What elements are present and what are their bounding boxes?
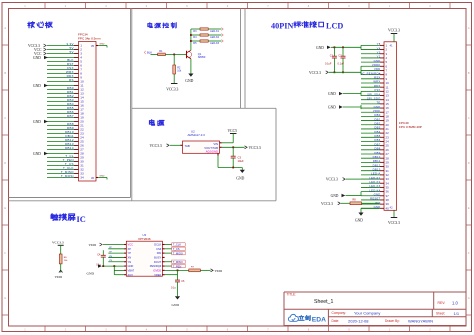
svg-text:DB2: DB2 <box>374 122 380 126</box>
svg-text:LED-K3: LED-K3 <box>369 184 380 188</box>
svg-text:LED-K2: LED-K2 <box>369 180 380 184</box>
svg-text:DB5: DB5 <box>374 134 380 138</box>
svg-text:PENIRQ#: PENIRQ# <box>150 264 162 268</box>
svg-text:WANGYAWIN: WANGYAWIN <box>408 319 433 324</box>
svg-text:A: A <box>4 26 6 30</box>
svg-text:VCC3.3: VCC3.3 <box>150 144 162 148</box>
svg-text:XN: XN <box>128 256 132 260</box>
svg-text:Your Company: Your Company <box>354 311 380 316</box>
svg-text:GND: GND <box>100 175 105 177</box>
svg-text:VCC3.3: VCC3.3 <box>321 202 333 206</box>
svg-text:0.1u: 0.1u <box>171 287 176 290</box>
svg-text:DB6: DB6 <box>374 138 380 142</box>
svg-text:YN: YN <box>128 260 132 264</box>
svg-text:VCC3.3: VCC3.3 <box>309 71 321 75</box>
svg-text:GND: GND <box>172 303 180 307</box>
svg-text:DIN: DIN <box>157 251 162 255</box>
svg-text:T_PEN: T_PEN <box>173 264 182 268</box>
svg-text:GND: GND <box>33 152 41 156</box>
svg-text:TE: TE <box>376 101 380 105</box>
svg-text:WRX: WRX <box>373 80 380 84</box>
svg-text:E: E <box>4 206 6 210</box>
svg-text:VCC3.3: VCC3.3 <box>52 241 64 245</box>
svg-text:CSX: CSX <box>374 88 380 92</box>
svg-text:T_MISO: T_MISO <box>173 260 183 264</box>
svg-text:EDA: EDA <box>312 316 326 323</box>
svg-text:Date:: Date: <box>332 319 340 323</box>
svg-text:G: G <box>468 296 470 300</box>
svg-text:GND: GND <box>33 120 41 124</box>
svg-text:0.1uF: 0.1uF <box>338 63 345 66</box>
svg-text:GND: GND <box>331 194 339 198</box>
svg-text:DB7: DB7 <box>67 114 74 118</box>
svg-text:GND: GND <box>355 219 363 223</box>
svg-text:XPT2046: XPT2046 <box>138 237 151 241</box>
svg-text:XN: XN <box>109 256 112 258</box>
svg-text:Y4: Y4 <box>377 46 381 50</box>
svg-text:S8050: S8050 <box>198 55 206 59</box>
svg-text:DB7: DB7 <box>374 142 380 146</box>
svg-text:VCC3.3: VCC3.3 <box>326 178 338 182</box>
svg-text:GND: GND <box>328 106 336 110</box>
svg-text:VDD: VDD <box>89 243 97 247</box>
svg-text:IOVDD: IOVDD <box>153 268 161 272</box>
svg-text:Sheet:: Sheet: <box>436 311 445 315</box>
svg-text:LED-K2: LED-K2 <box>210 36 219 39</box>
svg-text:VDD: VDD <box>215 269 223 273</box>
svg-text:DB11: DB11 <box>373 159 381 163</box>
svg-text:VREF: VREF <box>154 273 161 277</box>
svg-text:Y5: Y5 <box>377 42 381 46</box>
svg-text:2020-12-08: 2020-12-08 <box>348 319 369 324</box>
svg-text:VCC3.3: VCC3.3 <box>249 146 261 150</box>
svg-text:YP: YP <box>128 251 132 255</box>
svg-text:1.0: 1.0 <box>452 300 458 305</box>
svg-text:CS#: CS# <box>156 247 162 251</box>
svg-text:LED-K1: LED-K1 <box>369 176 380 180</box>
svg-text:LED-A: LED-A <box>371 172 380 176</box>
svg-text:IM0: IM0 <box>375 201 381 205</box>
svg-text:LED-K4: LED-K4 <box>369 188 380 192</box>
svg-text:YN: YN <box>109 260 112 262</box>
svg-text:TAB: TAB <box>185 144 190 148</box>
svg-text:RESET: RESET <box>370 197 380 201</box>
svg-text:B: B <box>4 71 6 75</box>
svg-text:Sheet_1: Sheet_1 <box>314 299 333 305</box>
svg-text:GND: GND <box>100 43 105 45</box>
svg-text:40PIN: 40PIN <box>271 21 293 30</box>
svg-text:DB14: DB14 <box>65 146 74 150</box>
svg-text:TITLE:: TITLE: <box>287 292 297 296</box>
svg-text:GND: GND <box>185 79 193 83</box>
svg-text:GND: GND <box>328 92 336 96</box>
svg-text:FPC 0.5MM 40P: FPC 0.5MM 40P <box>399 125 422 129</box>
svg-text:SPI_SDO: SPI_SDO <box>367 96 381 100</box>
svg-text:SPI_SDA: SPI_SDA <box>367 92 380 96</box>
svg-text:REV:: REV: <box>438 301 446 305</box>
svg-text:GND: GND <box>316 46 324 50</box>
svg-text:10uF: 10uF <box>238 159 244 163</box>
svg-text:VCC3.3: VCC3.3 <box>166 88 178 92</box>
svg-text:VCC: VCC <box>128 243 134 247</box>
svg-text:Drawn By:: Drawn By: <box>385 319 400 323</box>
svg-text:GND: GND <box>236 177 244 181</box>
svg-text:GND: GND <box>128 264 134 268</box>
svg-text:C: C <box>468 116 470 120</box>
svg-text:40: 40 <box>386 206 390 210</box>
svg-text:DB8: DB8 <box>374 147 380 151</box>
svg-text:GND: GND <box>33 56 41 60</box>
svg-text:AMS1117-3.3: AMS1117-3.3 <box>188 133 206 137</box>
svg-text:GND: GND <box>374 105 381 109</box>
svg-text:GND: GND <box>374 193 381 197</box>
svg-text:34: 34 <box>80 176 84 180</box>
svg-text:B: B <box>468 71 470 75</box>
svg-text:Y1: Y1 <box>377 55 381 59</box>
svg-text:DB3: DB3 <box>374 126 380 130</box>
svg-text:5V: 5V <box>70 50 74 54</box>
svg-text:D: D <box>468 161 470 165</box>
svg-text:1/1: 1/1 <box>454 311 460 316</box>
svg-text:FPC 34p 0.5mm: FPC 34p 0.5mm <box>78 36 101 40</box>
svg-text:C3: C3 <box>238 156 242 160</box>
svg-text:LED-K3: LED-K3 <box>210 42 219 45</box>
svg-text:AUX: AUX <box>128 273 134 277</box>
svg-text:A: A <box>468 26 470 30</box>
svg-text:C: C <box>4 116 6 120</box>
svg-text:VBAT: VBAT <box>128 268 135 272</box>
svg-text:VDD: VDD <box>55 275 63 279</box>
svg-text:VDDI: VDDI <box>373 109 381 113</box>
svg-text:DB9: DB9 <box>374 151 380 155</box>
svg-text:DB0: DB0 <box>374 113 380 117</box>
svg-text:G: G <box>4 296 6 300</box>
svg-text:Company:: Company: <box>332 311 347 315</box>
svg-text:XP: XP <box>128 247 132 251</box>
svg-text:BUSY: BUSY <box>154 256 161 260</box>
svg-text:RDX: RDX <box>374 84 381 88</box>
svg-text:LED-K1: LED-K1 <box>210 30 219 33</box>
svg-text:T_CS: T_CS <box>173 247 180 251</box>
svg-text:VDD: VDD <box>374 67 381 71</box>
svg-text:RS: RS <box>69 78 74 82</box>
svg-text:GND: GND <box>374 59 381 63</box>
svg-text:36: 36 <box>91 176 94 180</box>
svg-text:DB12: DB12 <box>373 163 381 167</box>
svg-text:ADJ/GND: ADJ/GND <box>206 150 218 154</box>
svg-text:IC: IC <box>77 215 86 224</box>
svg-text:DCLK: DCLK <box>154 243 161 247</box>
svg-text:RSX: RSX <box>374 76 380 80</box>
svg-text:LCD: LCD <box>326 21 343 30</box>
svg-text:NC_PENIRQ#: NC_PENIRQ# <box>360 71 380 75</box>
svg-text:T_CLK: T_CLK <box>173 243 182 247</box>
svg-text:DB13: DB13 <box>373 167 381 171</box>
svg-text:VDDK: VDDK <box>372 63 381 67</box>
svg-text:T_MOSI: T_MOSI <box>61 174 74 178</box>
svg-text:0.1uF: 0.1uF <box>325 63 332 66</box>
svg-text:35: 35 <box>91 44 94 48</box>
svg-text:VCC3.3: VCC3.3 <box>388 221 400 225</box>
svg-text:DB1: DB1 <box>374 117 380 121</box>
svg-text:Y3: Y3 <box>377 51 381 55</box>
svg-text:D: D <box>4 161 6 165</box>
svg-text:DB10: DB10 <box>373 155 381 159</box>
svg-text:VCC3.3: VCC3.3 <box>388 29 400 33</box>
svg-text:DB4: DB4 <box>374 130 380 134</box>
svg-text:DOUT: DOUT <box>154 260 162 264</box>
svg-text:T_MOSI: T_MOSI <box>173 251 183 255</box>
svg-text:GND: GND <box>33 84 41 88</box>
svg-text:E: E <box>468 206 470 210</box>
svg-text:VCC5: VCC5 <box>228 129 238 133</box>
svg-text:GND: GND <box>87 271 95 275</box>
